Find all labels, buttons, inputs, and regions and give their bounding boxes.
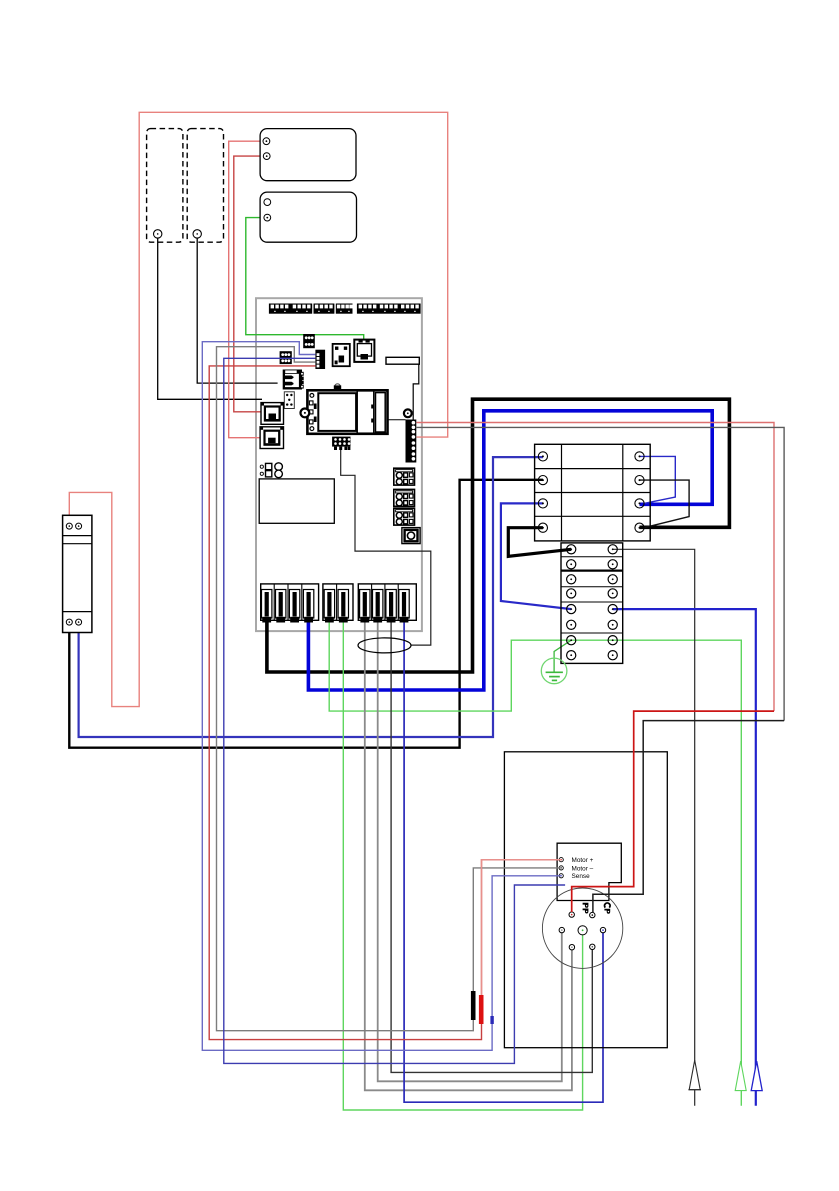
8-row terminal strip xyxy=(561,543,623,664)
side connector strip xyxy=(406,420,417,463)
dashed box 1 (sensor) xyxy=(147,129,183,243)
green arrow terminator xyxy=(735,1061,746,1091)
relay module big xyxy=(307,390,387,434)
RJ45 jack 1 xyxy=(261,403,284,425)
dual screw terminal 1 xyxy=(394,468,415,485)
rounded box R2 (control) xyxy=(260,192,356,242)
wire: red continuation to PP pin xyxy=(572,711,774,912)
strip right terminal xyxy=(608,545,617,554)
PSU DIN module xyxy=(63,515,92,632)
strip left terminal xyxy=(567,560,576,569)
contactor right terminal xyxy=(635,476,644,485)
small component below USB xyxy=(284,392,294,409)
wire: jumper block row2 right to row4 right (thin black) xyxy=(640,480,690,528)
svg-text:Sense: Sense xyxy=(572,873,591,880)
wire: Sense slate-blue loop (motor box to board header pin1) xyxy=(202,342,561,1051)
strip left terminal xyxy=(567,589,576,598)
motor terminal labels xyxy=(572,857,594,880)
USB connector xyxy=(283,370,304,390)
lower-right pin xyxy=(590,944,595,949)
rounded box R1 (control) xyxy=(260,129,356,181)
contactor left terminal xyxy=(538,523,547,532)
svg-text:Motor –: Motor – xyxy=(572,865,594,872)
spade terminal blade xyxy=(324,590,334,623)
wire: blue board t8 to motor connector right pin xyxy=(404,620,603,1102)
pink overlay Motor+ upper segment xyxy=(482,860,562,995)
bottom terminal group 3 xyxy=(358,584,416,620)
header H2 3x2 xyxy=(280,351,292,364)
dual screw terminal 3 xyxy=(394,508,415,525)
wire: strip row7 left to earth symbol (green) xyxy=(554,640,571,671)
wire: gray board t6 to motor connector left pin xyxy=(378,620,562,1081)
left pin xyxy=(559,927,564,932)
dual screw terminal 2 xyxy=(394,489,415,506)
strip left terminal xyxy=(567,545,576,554)
top pin header strip segment1 xyxy=(269,304,421,314)
dashed box 2 (sensor) xyxy=(187,129,223,243)
strip right terminal xyxy=(608,605,617,614)
contactor right terminal xyxy=(635,499,644,508)
wire: R2 green lead to board RJ45 top xyxy=(246,218,364,341)
wire: board terminal1 thick black to block row4 right xyxy=(267,399,730,672)
spade terminal blade xyxy=(386,590,396,623)
wire: dashed box1 lead xyxy=(158,238,262,400)
DIP component under relay xyxy=(332,437,350,450)
wire: R1 top circle red lead to RJ jack2 xyxy=(229,141,263,438)
CP label xyxy=(604,903,610,914)
wire: PSU N black to terminal-block row2 left xyxy=(69,480,543,748)
wire: gray board t5 to motor connector lower-left pin xyxy=(365,620,572,1090)
spade terminal blade xyxy=(303,590,313,623)
strip left terminal xyxy=(567,620,576,629)
bottom terminal group 1 xyxy=(261,584,319,620)
strip right terminal xyxy=(608,589,617,598)
opto component K1 xyxy=(333,344,350,366)
PP pin xyxy=(569,912,574,917)
strip right terminal xyxy=(608,636,617,645)
strip right terminal xyxy=(608,560,617,569)
contactor left terminal xyxy=(538,452,547,461)
spade terminal blade xyxy=(360,590,370,623)
spade terminal blade xyxy=(289,590,299,623)
spade terminal blade xyxy=(262,590,272,623)
wire: block row4 left to strip row1 left (thick black) xyxy=(508,528,571,557)
wire: strip row1 right to black arrow xyxy=(613,549,695,1106)
splice red on Motor+ wire xyxy=(479,995,484,1024)
4-pin input connector xyxy=(315,350,325,369)
motor terminal circles xyxy=(559,858,563,878)
wing bar at board right edge xyxy=(386,357,419,419)
wire: green2 board to motor connector centre pin xyxy=(343,620,582,1110)
learn button xyxy=(402,528,420,544)
wire: board terminal4 thick blue to block row3 right xyxy=(308,411,712,690)
contactor right terminal xyxy=(635,523,644,532)
black arrow terminator xyxy=(688,1060,701,1090)
strip left terminal xyxy=(567,651,576,660)
contactor left terminal xyxy=(538,476,547,485)
two-row terminal eBC xyxy=(260,463,282,478)
svg-text:Motor +: Motor + xyxy=(572,857,594,864)
wire: green1 board through strip row7 to green arrow xyxy=(329,620,741,1106)
strip left terminal xyxy=(567,575,576,584)
spade terminal blade xyxy=(276,590,286,623)
motor terminal box xyxy=(557,843,621,900)
wire: black continuation to CP pin xyxy=(593,721,784,913)
splice black on Motor- wire xyxy=(471,991,476,1020)
wire: gray from side-connector down right side xyxy=(417,427,785,720)
spade terminal blade xyxy=(373,590,383,623)
RJ45 jack top xyxy=(354,340,374,362)
wire: second blue loop (motor box to board header pin2) xyxy=(224,358,565,1063)
screw above side connector xyxy=(404,409,412,417)
right pin xyxy=(600,927,605,932)
wire: mains L pink loop from PSU top-left around border to board side-connector xyxy=(69,112,447,706)
top strip pin dots xyxy=(271,305,419,312)
RJ45 jack 2 xyxy=(260,427,283,449)
small tab above relay xyxy=(334,384,341,390)
spade terminal blade xyxy=(338,590,348,623)
big relay outline bottom-left xyxy=(259,479,334,523)
CP pin xyxy=(590,912,595,917)
PP label xyxy=(583,903,589,914)
cable bundle ellipse xyxy=(358,638,411,653)
controller board outline xyxy=(256,298,422,631)
wire: Motor+ red loop (motor box to board header pin4) xyxy=(209,366,561,1040)
motor round connector xyxy=(542,888,622,968)
wire: light red from side-connector down right side xyxy=(417,423,775,712)
relay mounting screw xyxy=(301,409,310,418)
contactor 4-row block xyxy=(535,444,651,541)
wire: R1 bottom circle red lead to RJ jack1 xyxy=(234,156,263,412)
lower-left pin xyxy=(569,945,574,950)
wire: Motor- gray loop (motor box to board header pin3) xyxy=(217,347,562,1031)
earth ground symbol xyxy=(541,658,567,684)
wire: dashed box2 lead xyxy=(197,238,277,384)
contactor right terminal xyxy=(635,452,644,461)
module boundary polyline to cable ellipse xyxy=(341,450,431,645)
contactor left terminal xyxy=(538,499,547,508)
bottom terminal group 2 xyxy=(323,584,353,620)
centre pin xyxy=(578,926,587,935)
wire: dark board t7 to motor connector lower-right pin xyxy=(391,620,592,1072)
wire: block row3 left to strip row5 left (blue) xyxy=(501,503,571,609)
blue arrow terminator xyxy=(751,1061,762,1091)
header H1 3x2 xyxy=(303,334,315,348)
strip right terminal xyxy=(608,575,617,584)
motor unit outer box xyxy=(504,752,667,1048)
wire: jumper block row1 right to row3 right (thin blue) xyxy=(640,456,676,503)
wire: strip row5 right to blue arrow xyxy=(613,609,756,1106)
splice blue small on Sense wire xyxy=(490,1016,493,1024)
spade terminal blade xyxy=(399,590,409,623)
strip left terminal xyxy=(567,605,576,614)
strip right terminal xyxy=(608,620,617,629)
strip left terminal xyxy=(567,636,576,645)
strip right terminal xyxy=(608,651,617,660)
wire: PSU blue to terminal-block row1 left xyxy=(79,457,543,737)
